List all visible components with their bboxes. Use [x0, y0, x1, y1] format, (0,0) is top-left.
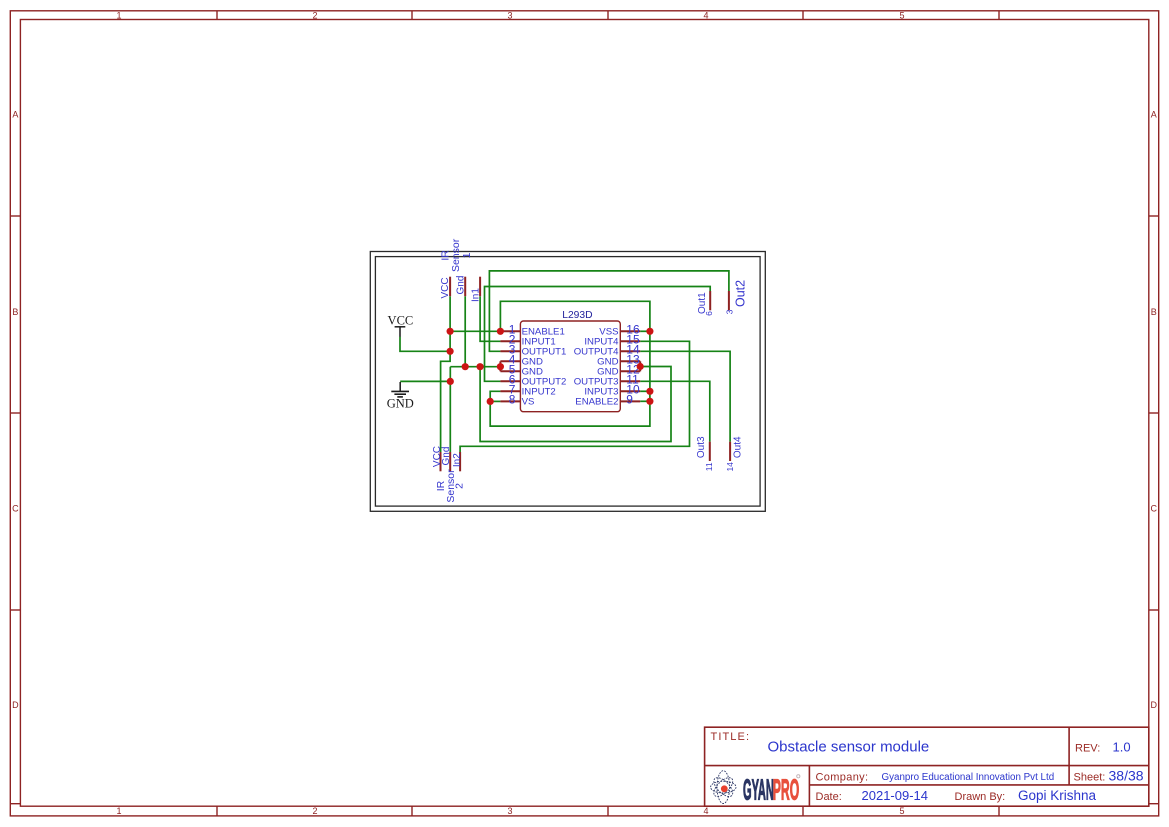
- svg-text:Out2: Out2: [734, 280, 748, 307]
- wire OUTPUT3 to Out3: [640, 381, 710, 441]
- svg-text:3: 3: [507, 10, 512, 20]
- IC U1 pin stubs left (1-8): [500, 331, 520, 401]
- IC U1 pin stubs right (9-16): [620, 331, 640, 401]
- svg-text:8: 8: [509, 393, 516, 407]
- svg-text:Date:: Date:: [816, 791, 842, 803]
- svg-text:VCC: VCC: [440, 277, 451, 298]
- junction INPUT3 pin10: [646, 388, 653, 395]
- wire OUTPUT1 to Out2: [489, 271, 729, 351]
- svg-text:Out3: Out3: [696, 436, 707, 458]
- svg-text:5: 5: [899, 10, 904, 20]
- wires: [400, 271, 730, 452]
- GND bracket pins 4-5 left: [499, 361, 501, 371]
- svg-text:3: 3: [507, 806, 512, 816]
- junction pin1 ENABLE1 stub: [497, 328, 504, 335]
- wire OUTPUT4 to Out4: [640, 351, 730, 441]
- wire In1 to INPUT1: [480, 296, 500, 341]
- ground GND: [387, 382, 414, 410]
- svg-text:1: 1: [116, 10, 121, 20]
- connector P2 pin labels: [432, 446, 463, 467]
- connector P2 IR Sensor 2 pins: [441, 452, 461, 471]
- port Out2 pin 3: [724, 280, 747, 315]
- junction ENABLE2 pin9: [646, 398, 653, 405]
- junction pin16 VSS stub: [646, 328, 653, 335]
- svg-text:C: C: [12, 504, 19, 514]
- wire VSS stub junction: [640, 330, 650, 332]
- wire ENABLE2 pin9: [640, 400, 650, 402]
- sheet border (schematic box): [370, 252, 765, 512]
- svg-text:A: A: [1151, 110, 1157, 120]
- svg-text:9: 9: [626, 393, 633, 407]
- IC U1 pin numbers left: [509, 322, 516, 406]
- svg-text:ENABLE2: ENABLE2: [575, 396, 618, 407]
- wire VS pin8: [490, 400, 500, 402]
- svg-text:1.0: 1.0: [1113, 740, 1131, 755]
- svg-text:4: 4: [703, 806, 708, 816]
- svg-text:D: D: [12, 700, 19, 710]
- GND bracket pins 12-13 right: [639, 361, 641, 371]
- svg-text:B: B: [1151, 307, 1157, 317]
- svg-text:PRO: PRO: [773, 773, 799, 806]
- junction VS pin8: [487, 398, 494, 405]
- svg-text:REV:: REV:: [1075, 743, 1100, 755]
- svg-text:Drawn By:: Drawn By:: [955, 791, 1006, 803]
- svg-text:B: B: [12, 307, 18, 317]
- company logo GYANPRO: [711, 771, 800, 806]
- junction VCC x pin1: [447, 328, 454, 335]
- wire VCC vertical right side: [490, 331, 650, 426]
- svg-text:Company:: Company:: [816, 771, 869, 783]
- IC U1 pin names right: [574, 326, 619, 407]
- svg-text:Out1: Out1: [697, 292, 708, 314]
- svg-text:38/38: 38/38: [1109, 768, 1144, 784]
- wire OUTPUT2 to Out1: [485, 287, 711, 382]
- svg-text:D: D: [1151, 700, 1158, 710]
- svg-text:TITLE:: TITLE:: [711, 731, 751, 743]
- svg-text:In2: In2: [452, 453, 463, 467]
- wire VCC to pin1 ENABLE1: [450, 330, 500, 332]
- svg-text:In1: In1: [470, 288, 481, 302]
- svg-text:Out4: Out4: [733, 436, 744, 458]
- svg-text:Gopi Krishna: Gopi Krishna: [1018, 788, 1097, 803]
- IC U1 pin numbers right: [626, 322, 640, 406]
- svg-text:2: 2: [312, 806, 317, 816]
- svg-text:2: 2: [312, 10, 317, 20]
- wire GND horizontal to pins 4/5: [450, 366, 500, 368]
- svg-text:1: 1: [116, 806, 121, 816]
- junction VCC symbol wire: [447, 348, 454, 355]
- junction GND wire branch: [477, 363, 484, 370]
- junction GND bracket pins 4-5: [497, 363, 504, 370]
- port Out3 pin 11: [696, 436, 714, 471]
- svg-text:Sheet:: Sheet:: [1074, 771, 1106, 783]
- svg-text:14: 14: [725, 462, 735, 472]
- svg-text:Obstacle sensor module: Obstacle sensor module: [768, 739, 930, 756]
- title block lines: [705, 727, 1149, 806]
- port Out4 pin 14: [725, 436, 744, 472]
- svg-text:A: A: [12, 110, 18, 120]
- svg-text:5: 5: [899, 806, 904, 816]
- connector P2 name IR Sensor 2: [435, 469, 465, 503]
- wire VCC net IR1 VCC pin down to IR2 VCC: [441, 296, 451, 452]
- connector P1 name IR Sensor 1: [440, 238, 473, 272]
- svg-text:Gnd: Gnd: [441, 447, 452, 466]
- connector P1 IR Sensor 1 pins: [450, 277, 480, 297]
- wire VCC symbol to net: [400, 337, 450, 352]
- port Out1 pin 6: [697, 291, 714, 316]
- junction GND bracket pins 12-13: [637, 363, 644, 370]
- svg-text:3: 3: [724, 309, 734, 314]
- connector P1 pin labels: [440, 276, 481, 302]
- svg-text:1: 1: [461, 252, 473, 258]
- svg-text:VCC: VCC: [388, 313, 414, 327]
- power flag VCC: [388, 313, 414, 336]
- svg-text:GND: GND: [387, 396, 414, 410]
- svg-text:4: 4: [703, 10, 708, 20]
- wire GND net: IR1 Gnd down: [464, 296, 466, 367]
- wire In2 to INPUT4: [460, 341, 689, 452]
- op IC U1 L293D body: [520, 310, 620, 412]
- wire GND to right bracket: [480, 367, 671, 442]
- wire GND symbol to net: [400, 380, 450, 382]
- IC U1 pin names left: [522, 326, 567, 407]
- svg-text:2021-09-14: 2021-09-14: [862, 788, 929, 803]
- junction IR1 Gnd on GND wire: [462, 363, 469, 370]
- svg-text:2: 2: [453, 483, 465, 489]
- svg-text:6: 6: [704, 311, 714, 316]
- svg-text:Gnd: Gnd: [455, 276, 466, 295]
- wire INPUT3 pin10: [640, 390, 650, 392]
- svg-text:L293D: L293D: [562, 310, 592, 321]
- svg-text:Gyanpro Educational Innovation: Gyanpro Educational Innovation Pvt Ltd: [882, 772, 1055, 783]
- wire GND down to IR2 Gnd: [449, 367, 451, 452]
- title block texts: [711, 731, 1144, 803]
- svg-text:VS: VS: [522, 396, 535, 407]
- wire ENABLE1 to VSS top loop: [500, 301, 650, 331]
- junction GND symbol wire: [447, 378, 454, 385]
- svg-text:GYAN: GYAN: [743, 773, 774, 806]
- svg-text:C: C: [1151, 504, 1158, 514]
- svg-text:11: 11: [704, 462, 714, 471]
